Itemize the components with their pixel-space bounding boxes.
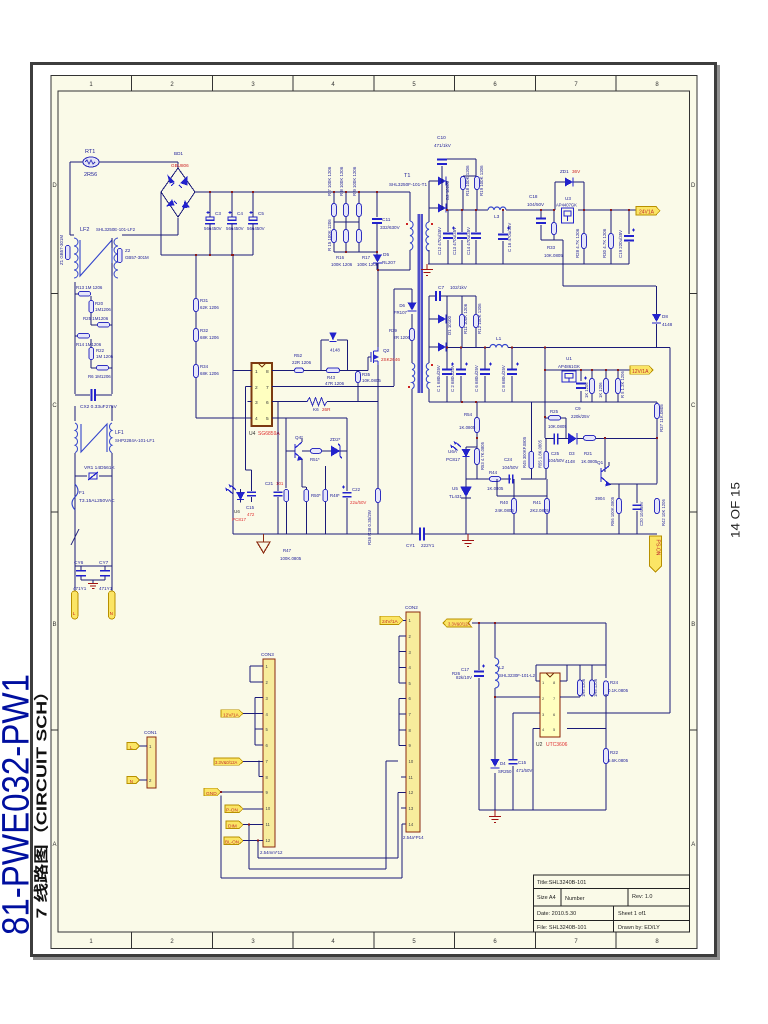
- svg-text:SHP2284A-101-LF1: SHP2284A-101-LF1: [115, 438, 155, 443]
- capacitor C4: [228, 217, 236, 220]
- svg-text:C20 104/50V: C20 104/50V: [639, 501, 644, 526]
- svg-text:C5: C5: [258, 211, 264, 216]
- optocoupler U6 (LED side): [226, 485, 245, 503]
- svg-text:R25: R25: [550, 409, 559, 414]
- resistor R22b: [604, 749, 609, 764]
- svg-text:6: 6: [266, 400, 269, 406]
- wire B- drop: [161, 192, 253, 255]
- net flag L: [127, 743, 140, 750]
- net flag 3.3V (CON3): [214, 758, 243, 765]
- wire primary ground bus: [233, 533, 657, 535]
- wire pin2 to opto: [246, 387, 252, 489]
- svg-text:R48*: R48*: [330, 493, 340, 498]
- inner border: [58, 91, 690, 932]
- svg-text:12: 12: [266, 838, 271, 843]
- svg-text:12: 12: [409, 790, 414, 795]
- svg-text:101: 101: [276, 481, 284, 486]
- capacitor CY7: [104, 566, 106, 580]
- wire 24V rail: [447, 209, 636, 211]
- svg-text:471/1kV: 471/1kV: [434, 143, 452, 148]
- svg-text:24V/1A: 24V/1A: [382, 619, 399, 625]
- svg-text:C 8 680u/25V: C 8 680u/25V: [501, 365, 506, 392]
- capacitor C18: [541, 210, 563, 286]
- wire U2 pin2: [495, 696, 540, 698]
- svg-text:D8: D8: [662, 314, 668, 319]
- svg-text:D3: D3: [569, 451, 575, 456]
- wire B+ rail: [195, 192, 410, 221]
- svg-text:B: B: [52, 622, 56, 628]
- svg-text:C21: C21: [265, 481, 274, 486]
- svg-text:RT1: RT1: [85, 149, 95, 155]
- wire U2 top rail: [536, 665, 606, 681]
- svg-text:3.3V&0/12A: 3.3V&0/12A: [448, 622, 471, 627]
- capacitor C20: [636, 484, 638, 534]
- svg-text:GND: GND: [206, 791, 217, 797]
- resistor R22: [89, 348, 94, 360]
- net flag PS-ON: [650, 536, 662, 572]
- svg-text:R53 4.7K.0805: R53 4.7K.0805: [480, 441, 485, 470]
- wire pin3 stub: [248, 401, 252, 403]
- resistor R41: [545, 499, 550, 514]
- svg-text:13: 13: [409, 806, 414, 811]
- common mode choke LF2: [74, 238, 118, 278]
- svg-text:R 7 100K 1206: R 7 100K 1206: [327, 166, 332, 196]
- svg-text:C9: C9: [575, 406, 581, 411]
- capacitor C16: [502, 210, 504, 264]
- secondary winding 12V: [426, 363, 429, 389]
- wire U2 pin3: [513, 713, 540, 810]
- diode D4: [491, 759, 500, 767]
- svg-text:R50*: R50*: [311, 493, 321, 498]
- wire clamp mid rail: [334, 221, 359, 223]
- wire 12V return rail: [429, 401, 657, 403]
- svg-text:81-PWE032-PW1: 81-PWE032-PW1: [0, 674, 38, 935]
- capacitor C6: [484, 348, 486, 403]
- wire B- to gnd bus: [232, 255, 234, 534]
- svg-text:R42 10K 1206: R42 10K 1206: [661, 499, 666, 526]
- capacitor C8: [511, 348, 513, 403]
- svg-text:A: A: [52, 842, 56, 848]
- resistor R54: [475, 418, 480, 433]
- svg-text:CY1: CY1: [406, 543, 415, 548]
- svg-text:1K.0805: 1K.0805: [459, 425, 476, 430]
- svg-text:DIM: DIM: [228, 824, 237, 830]
- capacitor CY6: [75, 565, 112, 567]
- svg-text:L: L: [130, 745, 133, 750]
- svg-text:5.6K.0805: 5.6K.0805: [608, 758, 629, 763]
- svg-text:P-ON: P-ON: [226, 808, 239, 814]
- svg-text:Rev: 1.0: Rev: 1.0: [632, 894, 652, 900]
- resistor R15: [332, 230, 337, 243]
- svg-text:56u450V: 56u450V: [204, 226, 222, 231]
- svg-text:AP4861GK: AP4861GK: [558, 364, 580, 369]
- svg-text:11: 11: [266, 822, 271, 827]
- svg-text:8: 8: [266, 369, 269, 375]
- resistor R37: [655, 404, 660, 419]
- resistor R51: [311, 449, 322, 454]
- resistor R24: [604, 681, 609, 696]
- svg-text:LF2: LF2: [80, 227, 89, 233]
- svg-text:R16: R16: [336, 255, 345, 260]
- capacitor C17: [478, 623, 480, 810]
- diode D1b: [429, 319, 438, 347]
- capacitor C13: [461, 210, 463, 264]
- connector CON2: [406, 612, 420, 832]
- net flag P-ON: [225, 805, 243, 812]
- svg-text:C 1 680u/25V: C 1 680u/25V: [436, 365, 441, 392]
- svg-text:Title:SHL3240B-101: Title:SHL3240B-101: [537, 880, 586, 886]
- capacitor C1: [446, 348, 448, 403]
- svg-text:N: N: [130, 779, 133, 784]
- svg-text:R36 R38 0.35/2W: R36 R38 0.35/2W: [367, 509, 372, 545]
- svg-text:56u450V: 56u450V: [247, 226, 265, 231]
- svg-text:Number: Number: [565, 896, 585, 902]
- inductor L3: [488, 207, 506, 210]
- svg-text:C 16 470u/35V: C 16 470u/35V: [507, 223, 512, 252]
- svg-text:Z1 GB57-301M: Z1 GB57-301M: [59, 235, 64, 265]
- capacitor C12: [447, 210, 449, 264]
- svg-text:24V1A: 24V1A: [639, 210, 655, 216]
- resistor R25: [98, 322, 110, 327]
- svg-text:4148: 4148: [662, 322, 673, 327]
- wire pin4: [247, 417, 252, 419]
- column/row labels: [52, 82, 696, 945]
- connector CON3: [263, 659, 275, 847]
- regulator U1: [562, 371, 576, 382]
- IC U4: [252, 363, 273, 426]
- wire CON3 jumper p1-p2: [250, 666, 263, 682]
- resistor R40: [512, 499, 517, 514]
- regulator U3: [562, 208, 574, 223]
- resistor RB 100K: [474, 315, 479, 328]
- svg-text:3: 3: [255, 400, 258, 406]
- svg-text:U6: U6: [234, 509, 240, 514]
- transistor Q1: [601, 466, 610, 486]
- svg-text:2R 1206: 2R 1206: [393, 335, 410, 340]
- svg-text:D2 10200: D2 10200: [445, 180, 450, 200]
- svg-text:ZD2*: ZD2*: [330, 437, 341, 442]
- wire CON2 p11 p13 stubs: [401, 777, 406, 808]
- resistor R42: [655, 499, 660, 514]
- ground (secondary red): [467, 534, 469, 540]
- svg-text:C 2 680u/25V: C 2 680u/25V: [450, 365, 455, 392]
- svg-text:47R 1206: 47R 1206: [325, 381, 345, 386]
- svg-text:10: 10: [409, 759, 414, 764]
- sense resistor R36/R38: [376, 489, 381, 503]
- svg-text:PC817: PC817: [446, 457, 460, 462]
- bridge rectifier BD1: [161, 168, 195, 217]
- column ticks top/bottom: [51, 76, 697, 949]
- svg-text:14 OF 15: 14 OF 15: [729, 482, 743, 538]
- svg-text:472: 472: [247, 512, 255, 517]
- diode D1a: [429, 319, 447, 348]
- net flag 24V/1A (CON2): [380, 616, 403, 624]
- svg-text:UTC3606: UTC3606: [546, 742, 568, 748]
- svg-text:U1: U1: [566, 356, 572, 361]
- svg-text:R 9 100K 1206: R 9 100K 1206: [352, 166, 357, 196]
- capacitor C14: [475, 210, 477, 264]
- varistor VR1: [75, 475, 112, 477]
- svg-text:R54: R54: [464, 412, 473, 417]
- svg-text:Date: 2010.5.30: Date: 2010.5.30: [537, 911, 576, 917]
- svg-text:3904: 3904: [595, 496, 605, 501]
- svg-text:R43: R43: [327, 375, 336, 380]
- resistor R8: [344, 204, 349, 217]
- capacitor C11: [376, 192, 378, 252]
- svg-text:22u/50V: 22u/50V: [350, 500, 366, 505]
- svg-text:22R 1206: 22R 1206: [292, 360, 312, 365]
- net flag BL-ON: [224, 837, 243, 844]
- svg-text:2R56: 2R56: [84, 172, 97, 178]
- svg-text:Q1: Q1: [597, 460, 604, 465]
- wire CON3 jumper p3-p6: [255, 698, 263, 745]
- svg-text:1K.0805: 1K.0805: [487, 486, 504, 491]
- svg-text:C7: C7: [438, 285, 444, 291]
- resistor R50: [304, 490, 309, 502]
- svg-text:L3: L3: [494, 214, 500, 220]
- svg-text:T3.15AL250VAC: T3.15AL250VAC: [79, 498, 115, 504]
- svg-text:R20: R20: [95, 301, 104, 306]
- resistor R35: [356, 372, 361, 383]
- resistor R9: [357, 204, 362, 217]
- svg-text:CON2: CON2: [405, 605, 418, 610]
- svg-text:100K.0805: 100K.0805: [280, 556, 302, 561]
- wire clamp node: [334, 251, 378, 253]
- svg-text:PS-ON: PS-ON: [655, 540, 661, 556]
- wire pin6 drop: [277, 402, 279, 489]
- wire 24V return rail: [428, 263, 629, 265]
- svg-text:471Y1: 471Y1: [73, 586, 87, 591]
- svg-text:CY6: CY6: [74, 560, 84, 566]
- net flag 24V1A: [636, 207, 660, 216]
- IC U2: [540, 673, 560, 737]
- svg-text:1K.0805: 1K.0805: [581, 459, 598, 464]
- svg-text:BL-ON: BL-ON: [225, 840, 239, 845]
- svg-text:4148: 4148: [330, 348, 340, 353]
- svg-text:PC817: PC817: [232, 517, 246, 522]
- svg-text:R25 1M1206: R25 1M1206: [83, 316, 109, 321]
- svg-text:F1: F1: [79, 490, 85, 496]
- diode ZD2: [331, 446, 340, 457]
- svg-text:SHL3230F-101-L2: SHL3230F-101-L2: [499, 673, 536, 678]
- svg-text:R37 11K.0805: R37 11K.0805: [659, 404, 664, 432]
- svg-text:T1: T1: [404, 173, 410, 179]
- svg-text:R45 300KF.0805: R45 300KF.0805: [522, 436, 527, 468]
- resistor R21: [584, 436, 596, 441]
- thermistor RT1: [83, 157, 99, 167]
- wire fb row: [466, 479, 546, 534]
- svg-text:C4: C4: [237, 211, 243, 216]
- resistor R6Z zigzag: [307, 398, 327, 406]
- svg-text:R11 100K 1206: R11 100K 1206: [463, 303, 468, 334]
- svg-text:332/630V: 332/630V: [380, 225, 401, 230]
- svg-text:2.54a*P14: 2.54a*P14: [403, 835, 424, 840]
- svg-text:471Y1: 471Y1: [99, 586, 113, 591]
- svg-text:U6A: U6A: [448, 449, 458, 454]
- transformer core: [419, 214, 422, 393]
- svg-text:Size A4: Size A4: [537, 895, 556, 901]
- wire pin5 line: [272, 418, 347, 488]
- resistor R18: [461, 177, 466, 190]
- resistor R20: [89, 301, 94, 313]
- diode D7 loop: [321, 340, 348, 370]
- capacitor C21: [277, 489, 279, 534]
- wire pin6 cs line: [272, 401, 378, 403]
- startup resistor R31: [194, 299, 199, 312]
- svg-text:4: 4: [255, 416, 258, 422]
- optocoupler U6A (transistor side): [451, 442, 470, 457]
- svg-text:CX2 0.33uF275V: CX2 0.33uF275V: [80, 404, 118, 410]
- svg-text:CON3: CON3: [261, 652, 274, 657]
- svg-text:7 线路图（CIRCUIT SCH）: 7 线路图（CIRCUIT SCH）: [33, 682, 51, 919]
- svg-text:104/50V: 104/50V: [548, 458, 564, 463]
- svg-text:File: SHL3240B-101: File: SHL3240B-101: [537, 925, 587, 931]
- svg-text:104/50V: 104/50V: [502, 465, 518, 470]
- svg-text:Sheet 1 of1: Sheet 1 of1: [618, 911, 646, 917]
- svg-text:C18: C18: [529, 194, 538, 199]
- ground (buck red): [494, 810, 496, 816]
- svg-text:R32: R32: [200, 328, 209, 333]
- svg-text:C17: C17: [461, 667, 470, 672]
- svg-text:SHL3250E-101-LF2: SHL3250E-101-LF2: [96, 227, 136, 232]
- svg-text:L1: L1: [496, 336, 502, 342]
- svg-text:TL431: TL431: [449, 494, 462, 499]
- svg-text:AP4407GK: AP4407GK: [556, 203, 577, 208]
- svg-text:R30 4.7K 1206: R30 4.7K 1206: [602, 228, 607, 258]
- svg-text:62K 1206: 62K 1206: [200, 305, 219, 310]
- svg-text:68K 1206: 68K 1206: [200, 335, 219, 340]
- svg-text:56u450V: 56u450V: [226, 226, 244, 231]
- svg-text:10K.0805: 10K.0805: [544, 253, 563, 258]
- svg-text:R 15 100K 1206: R 15 100K 1206: [327, 219, 332, 251]
- svg-text:R47: R47: [283, 548, 292, 553]
- svg-text:GB57-301M: GB57-301M: [125, 255, 149, 260]
- diode D8 branch: [563, 286, 657, 348]
- svg-text:U3: U3: [565, 196, 571, 201]
- resistor R14: [78, 333, 90, 338]
- svg-text:R44: R44: [489, 470, 498, 475]
- svg-text:2SK2646: 2SK2646: [381, 357, 400, 362]
- svg-text:C13 470u/35V: C13 470u/35V: [452, 227, 457, 255]
- svg-text:A: A: [691, 842, 695, 848]
- capacitor C7: [429, 296, 447, 319]
- schematic sheet: [51, 76, 697, 949]
- resistor R28 4.7K: [582, 234, 587, 249]
- svg-text:R22: R22: [96, 348, 105, 353]
- svg-text:C15: C15: [246, 505, 255, 510]
- wire pin1: [233, 369, 252, 371]
- capacitor C9: [580, 370, 582, 402]
- svg-text:1R5.1206: 1R5.1206: [593, 678, 598, 697]
- resistor R45: [529, 452, 534, 469]
- capacitor C25: [554, 434, 558, 445]
- svg-text:B: B: [691, 622, 695, 628]
- svg-text:D5: D5: [383, 252, 389, 258]
- svg-text:R19 100K 1206: R19 100K 1206: [479, 165, 484, 196]
- diode D2a: [429, 181, 447, 210]
- svg-text:BD1: BD1: [174, 151, 183, 156]
- svg-text:ZD1: ZD1: [560, 169, 569, 174]
- capacitor C24: [509, 475, 513, 484]
- transistor Q2 mosfet: [371, 347, 378, 365]
- svg-text:U5: U5: [452, 486, 458, 491]
- wire CON3 jumper p7-p8: [259, 761, 263, 777]
- resistor R56: [617, 499, 622, 514]
- diode D3: [568, 433, 577, 445]
- svg-text:R35: R35: [362, 372, 371, 377]
- svg-text:14: 14: [409, 822, 414, 827]
- net flag N: [127, 777, 140, 784]
- resistor RA 100K: [460, 315, 465, 328]
- svg-text:1K 1206: 1K 1206: [598, 382, 603, 398]
- svg-text:SHL3250F-101-T1: SHL3250F-101-T1: [389, 182, 427, 187]
- svg-text:1: 1: [255, 369, 258, 375]
- inductor L1: [490, 345, 508, 348]
- svg-text:R24: R24: [610, 680, 619, 685]
- svg-text:Q2: Q2: [383, 348, 390, 354]
- resistor R26b: [590, 379, 595, 394]
- svg-text:C25: C25: [551, 451, 560, 456]
- svg-text:Drawn by: ED/LY: Drawn by: ED/LY: [618, 925, 660, 931]
- resistor R19: [475, 177, 480, 190]
- svg-text:R52: R52: [294, 353, 303, 358]
- resistor R53: [475, 449, 480, 465]
- svg-text:R28 4.7K 1206: R28 4.7K 1206: [575, 228, 580, 258]
- ground (AC safety): [81, 580, 105, 583]
- common mode choke LF1: [75, 423, 112, 453]
- svg-text:11: 11: [409, 775, 414, 780]
- svg-text:R12 100K 1206: R12 100K 1206: [477, 303, 482, 334]
- resistor R55: [544, 452, 549, 469]
- resistor Z2: [117, 249, 122, 263]
- svg-text:R56 100K.0805: R56 100K.0805: [610, 496, 615, 526]
- resistor R49: [284, 490, 289, 502]
- wire CON2 jumper p6-p9: [399, 699, 406, 746]
- wire CON2 jumper p2-p5: [399, 636, 406, 683]
- resistor R52: [295, 368, 304, 373]
- svg-text:C15: C15: [518, 760, 527, 765]
- svg-text:N: N: [110, 611, 113, 616]
- svg-text:2.54mm*12: 2.54mm*12: [260, 850, 283, 855]
- wire Q2 drain: [377, 270, 379, 347]
- wire buck gnd rail: [479, 809, 606, 811]
- svg-text:Z2: Z2: [125, 248, 131, 253]
- svg-text:12V/1A: 12V/1A: [223, 712, 240, 718]
- zener ZD1: [555, 182, 584, 210]
- svg-text:C3: C3: [215, 211, 221, 216]
- svg-text:LF1: LF1: [115, 430, 124, 436]
- svg-text:L2: L2: [499, 665, 505, 670]
- svg-text:68K 1206: 68K 1206: [200, 371, 219, 376]
- resistor R29 4.7K: [609, 234, 614, 249]
- title block: [534, 875, 690, 932]
- svg-text:220k/25V: 220k/25V: [571, 414, 590, 419]
- svg-text:R17: R17: [362, 255, 371, 260]
- svg-text:2K2.0805: 2K2.0805: [530, 508, 549, 513]
- svg-text:R13 1M 1206: R13 1M 1206: [76, 285, 103, 290]
- resistor R17: [357, 230, 362, 243]
- wire fb line: [545, 421, 657, 484]
- svg-text:K6: K6: [313, 407, 319, 412]
- svg-text:L: L: [73, 611, 76, 616]
- diode D2b: [429, 181, 438, 208]
- wire buck input: [472, 623, 606, 665]
- resistor R43: [327, 368, 340, 373]
- resistor R39: [410, 329, 415, 341]
- capacitor C15p: [251, 489, 253, 502]
- svg-text:1M1206: 1M1206: [95, 307, 111, 312]
- svg-text:Q4*: Q4*: [295, 435, 303, 440]
